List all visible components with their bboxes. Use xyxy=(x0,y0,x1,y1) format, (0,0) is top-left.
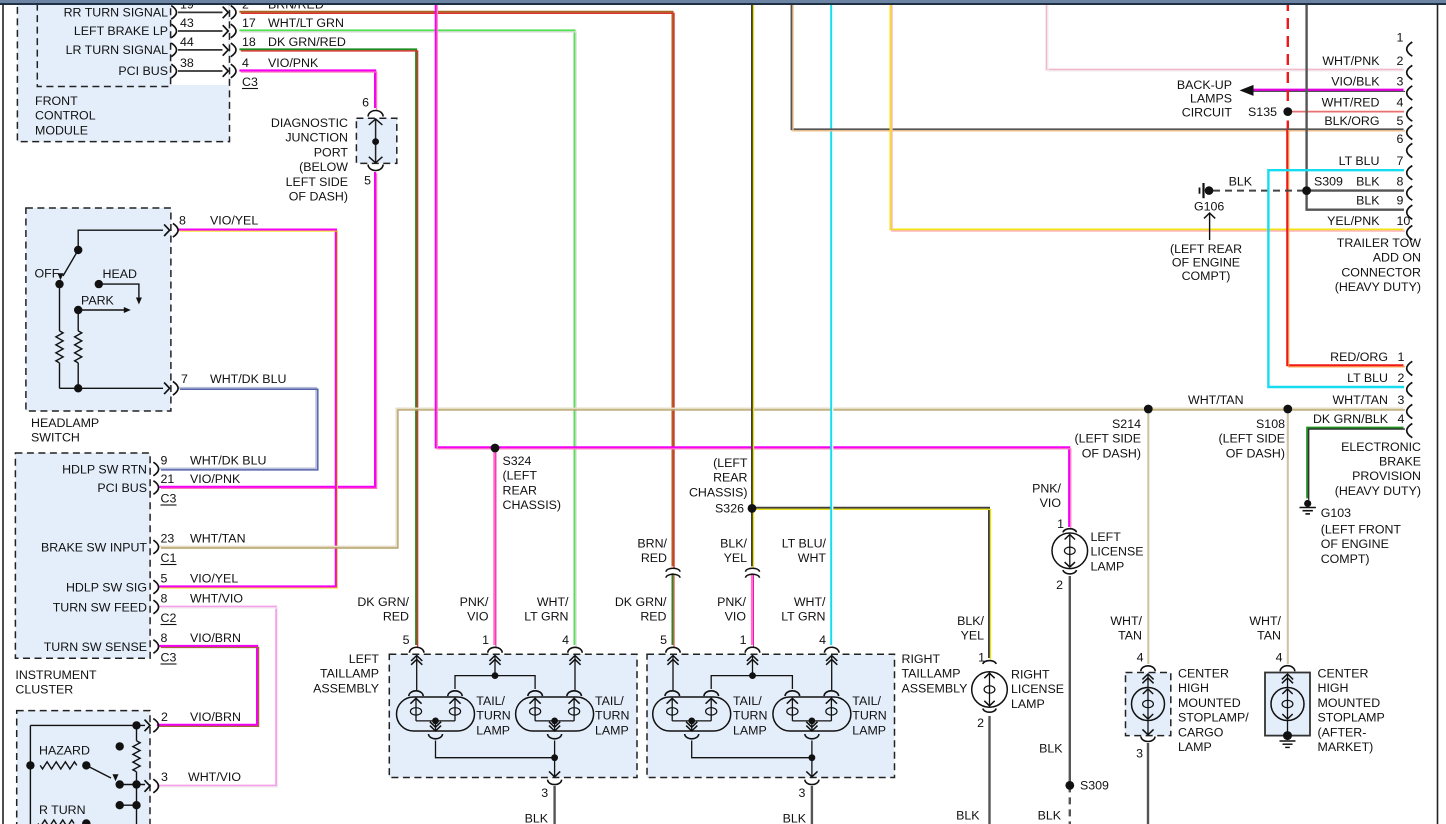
svg-text:LT BLU/: LT BLU/ xyxy=(782,537,827,551)
svg-text:3: 3 xyxy=(1397,74,1404,88)
svg-text:VIO/BLK: VIO/BLK xyxy=(1331,74,1380,88)
svg-text:4: 4 xyxy=(562,633,569,647)
svg-text:VIO/BRN: VIO/BRN xyxy=(190,631,241,645)
svg-text:YEL: YEL xyxy=(724,551,748,565)
svg-text:(BELOW: (BELOW xyxy=(299,160,348,174)
svg-text:LAMP: LAMP xyxy=(1011,697,1045,711)
svg-text:(LEFT SIDE: (LEFT SIDE xyxy=(1218,432,1285,446)
svg-text:JUNCTION: JUNCTION xyxy=(285,131,348,145)
svg-text:3: 3 xyxy=(798,786,805,800)
svg-text:VIO/BRN: VIO/BRN xyxy=(190,710,241,724)
svg-text:VIO: VIO xyxy=(467,610,489,624)
svg-text:C3: C3 xyxy=(242,75,258,89)
svg-text:LAMP: LAMP xyxy=(595,723,629,737)
svg-text:3: 3 xyxy=(1398,393,1405,407)
svg-text:CONNECTOR: CONNECTOR xyxy=(1341,265,1421,279)
svg-text:BLK: BLK xyxy=(1229,175,1253,189)
svg-text:(HEAVY DUTY): (HEAVY DUTY) xyxy=(1335,280,1421,294)
svg-text:2: 2 xyxy=(977,716,984,730)
svg-text:BLK/: BLK/ xyxy=(957,614,984,628)
svg-text:5: 5 xyxy=(161,572,168,586)
svg-text:44: 44 xyxy=(180,35,194,49)
svg-text:43: 43 xyxy=(180,16,194,30)
svg-text:7: 7 xyxy=(181,372,188,386)
svg-text:LEFT SIDE: LEFT SIDE xyxy=(286,175,348,189)
svg-text:TURN: TURN xyxy=(852,709,886,723)
svg-text:8: 8 xyxy=(179,214,186,228)
svg-text:10: 10 xyxy=(1397,214,1411,228)
svg-text:HAZARD: HAZARD xyxy=(39,744,90,758)
svg-text:ASSEMBLY: ASSEMBLY xyxy=(313,681,379,695)
svg-text:LEFT: LEFT xyxy=(349,652,380,666)
svg-text:WHT/DK BLU: WHT/DK BLU xyxy=(210,372,286,386)
svg-text:(LEFT FRONT: (LEFT FRONT xyxy=(1321,523,1402,537)
svg-text:TRAILER TOW: TRAILER TOW xyxy=(1337,236,1422,250)
svg-text:(LEFT: (LEFT xyxy=(503,469,538,483)
svg-text:COMPT): COMPT) xyxy=(1182,269,1231,283)
svg-text:LAMPS: LAMPS xyxy=(1190,92,1232,106)
svg-text:(HEAVY DUTY): (HEAVY DUTY) xyxy=(1335,484,1421,498)
svg-text:INSTRUMENT: INSTRUMENT xyxy=(15,668,97,682)
svg-text:1: 1 xyxy=(1397,31,1404,45)
svg-text:5: 5 xyxy=(364,174,371,188)
svg-text:C3: C3 xyxy=(161,492,177,506)
svg-text:21: 21 xyxy=(161,472,175,486)
svg-text:RIGHT: RIGHT xyxy=(1011,668,1050,682)
svg-text:G103: G103 xyxy=(1321,506,1351,520)
svg-text:TURN: TURN xyxy=(476,709,510,723)
svg-text:LICENSE: LICENSE xyxy=(1011,682,1064,696)
svg-text:(LEFT SIDE: (LEFT SIDE xyxy=(1074,432,1141,446)
svg-text:PNK/: PNK/ xyxy=(460,595,489,609)
svg-text:WHT/TAN: WHT/TAN xyxy=(1188,393,1244,407)
svg-text:TAN: TAN xyxy=(1118,629,1142,643)
svg-text:RIGHT: RIGHT xyxy=(902,652,941,666)
svg-text:LAMP: LAMP xyxy=(1091,559,1125,573)
svg-text:CIRCUIT: CIRCUIT xyxy=(1182,105,1233,119)
svg-text:R TURN: R TURN xyxy=(39,803,86,817)
svg-text:PCI BUS: PCI BUS xyxy=(118,64,168,78)
svg-text:2: 2 xyxy=(161,710,168,724)
svg-text:VIO/YEL: VIO/YEL xyxy=(190,572,238,586)
svg-text:7: 7 xyxy=(1397,154,1404,168)
svg-text:STOPLAMP/: STOPLAMP/ xyxy=(1178,711,1249,725)
svg-text:ELECTRONIC: ELECTRONIC xyxy=(1341,440,1421,454)
svg-text:BRN/: BRN/ xyxy=(637,537,667,551)
svg-text:BLK: BLK xyxy=(1356,194,1380,208)
svg-text:LAMP: LAMP xyxy=(476,723,510,737)
svg-text:OF ENGINE: OF ENGINE xyxy=(1321,537,1389,551)
svg-text:5: 5 xyxy=(403,633,410,647)
svg-text:WHT: WHT xyxy=(798,551,827,565)
svg-text:VIO/YEL: VIO/YEL xyxy=(210,214,258,228)
svg-text:S309: S309 xyxy=(1080,779,1109,793)
svg-text:TAIL/: TAIL/ xyxy=(476,694,505,708)
svg-text:4: 4 xyxy=(819,633,826,647)
svg-text:38: 38 xyxy=(180,56,194,70)
svg-text:HEADLAMP: HEADLAMP xyxy=(31,416,99,430)
svg-text:TURN: TURN xyxy=(733,709,767,723)
svg-text:S108: S108 xyxy=(1256,417,1285,431)
svg-text:VIO/PNK: VIO/PNK xyxy=(268,56,319,70)
svg-text:TURN: TURN xyxy=(595,709,629,723)
svg-text:CENTER: CENTER xyxy=(1178,667,1229,681)
svg-text:WHT/TAN: WHT/TAN xyxy=(190,532,246,546)
svg-text:TURN SW SENSE: TURN SW SENSE xyxy=(44,640,147,654)
svg-text:BLK: BLK xyxy=(956,809,980,823)
svg-text:COMPT): COMPT) xyxy=(1321,552,1370,566)
svg-text:1: 1 xyxy=(482,633,489,647)
svg-text:BACK-UP: BACK-UP xyxy=(1177,78,1232,92)
svg-text:(LEFT REAR: (LEFT REAR xyxy=(1170,242,1242,256)
svg-text:HIGH: HIGH xyxy=(1178,681,1209,695)
svg-text:VIO/PNK: VIO/PNK xyxy=(190,472,241,486)
svg-text:8: 8 xyxy=(1397,175,1404,189)
svg-text:C3: C3 xyxy=(161,651,177,665)
svg-text:8: 8 xyxy=(161,631,168,645)
svg-text:CENTER: CENTER xyxy=(1318,667,1369,681)
svg-text:S309: S309 xyxy=(1314,175,1343,189)
svg-text:LT GRN: LT GRN xyxy=(524,610,568,624)
svg-text:PNK/: PNK/ xyxy=(717,595,746,609)
svg-text:BLK: BLK xyxy=(783,812,807,824)
svg-text:MOUNTED: MOUNTED xyxy=(1318,696,1381,710)
svg-text:WHT/: WHT/ xyxy=(794,595,826,609)
svg-text:23: 23 xyxy=(161,532,175,546)
svg-text:PROVISION: PROVISION xyxy=(1352,469,1421,483)
svg-text:SWITCH: SWITCH xyxy=(31,431,80,445)
svg-text:WHT/TAN: WHT/TAN xyxy=(1332,393,1388,407)
svg-text:TAIL/: TAIL/ xyxy=(595,694,624,708)
svg-text:6: 6 xyxy=(362,96,369,110)
svg-text:DK GRN/BLK: DK GRN/BLK xyxy=(1313,412,1389,426)
svg-text:BLK/: BLK/ xyxy=(720,537,747,551)
svg-text:S214: S214 xyxy=(1112,417,1141,431)
svg-text:OF DASH): OF DASH) xyxy=(289,190,348,204)
svg-text:9: 9 xyxy=(161,454,168,468)
svg-text:S326: S326 xyxy=(715,502,744,516)
svg-text:TAIL/: TAIL/ xyxy=(733,694,762,708)
svg-text:BLK: BLK xyxy=(525,812,549,824)
svg-text:CHASSIS): CHASSIS) xyxy=(689,485,748,499)
svg-text:RED: RED xyxy=(641,551,667,565)
svg-text:4: 4 xyxy=(1397,96,1404,110)
svg-text:OF DASH): OF DASH) xyxy=(1226,446,1285,460)
svg-text:RED: RED xyxy=(383,610,409,624)
svg-text:CLUSTER: CLUSTER xyxy=(15,683,73,697)
svg-text:3: 3 xyxy=(541,786,548,800)
svg-text:TAILLAMP: TAILLAMP xyxy=(902,667,961,681)
svg-text:1: 1 xyxy=(1057,517,1064,531)
svg-text:1: 1 xyxy=(1398,350,1405,364)
svg-text:4: 4 xyxy=(1137,651,1144,665)
svg-text:WHT/RED: WHT/RED xyxy=(1322,96,1380,110)
svg-text:1: 1 xyxy=(740,633,747,647)
svg-text:2: 2 xyxy=(1056,578,1063,592)
svg-text:YEL: YEL xyxy=(961,629,985,643)
svg-text:STOPLAMP: STOPLAMP xyxy=(1318,711,1385,725)
svg-text:WHT/LT GRN: WHT/LT GRN xyxy=(268,16,344,30)
svg-text:RED: RED xyxy=(640,610,666,624)
svg-text:5: 5 xyxy=(1397,114,1404,128)
svg-text:CHASSIS): CHASSIS) xyxy=(503,498,562,512)
svg-text:18: 18 xyxy=(242,35,256,49)
svg-text:9: 9 xyxy=(1397,194,1404,208)
svg-text:(LEFT: (LEFT xyxy=(713,456,748,470)
svg-text:TAN: TAN xyxy=(1257,629,1281,643)
svg-text:LT GRN: LT GRN xyxy=(781,610,825,624)
svg-text:LEFT: LEFT xyxy=(1091,530,1122,544)
svg-text:OFF: OFF xyxy=(35,267,60,281)
svg-text:ASSEMBLY: ASSEMBLY xyxy=(902,681,968,695)
svg-text:S135: S135 xyxy=(1248,105,1277,119)
svg-text:17: 17 xyxy=(242,16,256,30)
svg-text:TAILLAMP: TAILLAMP xyxy=(320,667,379,681)
svg-text:FRONT: FRONT xyxy=(35,94,78,108)
svg-text:C1: C1 xyxy=(161,551,177,565)
svg-text:TAIL/: TAIL/ xyxy=(852,694,881,708)
svg-text:PNK/: PNK/ xyxy=(1032,482,1061,496)
svg-text:LAMP: LAMP xyxy=(1178,740,1212,754)
svg-text:C2: C2 xyxy=(161,611,177,625)
svg-text:HDLP SW RTN: HDLP SW RTN xyxy=(62,463,147,477)
svg-text:WHT/VIO: WHT/VIO xyxy=(190,592,243,606)
svg-text:DIAGNOSTIC: DIAGNOSTIC xyxy=(271,116,348,130)
svg-text:WHT/: WHT/ xyxy=(537,595,569,609)
svg-text:3: 3 xyxy=(161,770,168,784)
svg-text:HDLP SW SIG: HDLP SW SIG xyxy=(66,581,147,595)
svg-text:REAR: REAR xyxy=(713,471,747,485)
svg-text:BLK: BLK xyxy=(1356,175,1380,189)
svg-text:RED/ORG: RED/ORG xyxy=(1330,350,1388,364)
svg-text:CONTROL: CONTROL xyxy=(35,109,96,123)
svg-text:BLK/ORG: BLK/ORG xyxy=(1324,114,1379,128)
svg-text:YEL/PNK: YEL/PNK xyxy=(1327,214,1380,228)
svg-text:CARGO: CARGO xyxy=(1178,725,1224,739)
svg-text:LAMP: LAMP xyxy=(733,723,767,737)
svg-text:5: 5 xyxy=(660,633,667,647)
svg-text:(AFTER-: (AFTER- xyxy=(1318,725,1367,739)
svg-text:WHT/VIO: WHT/VIO xyxy=(188,770,241,784)
svg-text:LAMP: LAMP xyxy=(852,723,886,737)
svg-text:DK GRN/: DK GRN/ xyxy=(615,595,667,609)
svg-text:PCI BUS: PCI BUS xyxy=(97,481,147,495)
svg-text:S324: S324 xyxy=(503,454,532,468)
svg-text:LICENSE: LICENSE xyxy=(1091,545,1144,559)
svg-text:DK GRN/: DK GRN/ xyxy=(357,595,409,609)
svg-text:WHT/: WHT/ xyxy=(1249,614,1281,628)
svg-text:DK GRN/RED: DK GRN/RED xyxy=(268,35,346,49)
svg-text:HEAD: HEAD xyxy=(103,267,137,281)
svg-text:8: 8 xyxy=(161,592,168,606)
svg-text:BRAKE SW INPUT: BRAKE SW INPUT xyxy=(41,541,147,555)
svg-text:1: 1 xyxy=(978,651,985,665)
svg-text:MOUNTED: MOUNTED xyxy=(1178,696,1241,710)
svg-text:LT BLU: LT BLU xyxy=(1347,371,1388,385)
svg-text:6: 6 xyxy=(1397,132,1404,146)
svg-text:WHT/DK BLU: WHT/DK BLU xyxy=(190,454,266,468)
svg-text:OF DASH): OF DASH) xyxy=(1082,446,1141,460)
svg-text:4: 4 xyxy=(1398,412,1405,426)
svg-text:BLK: BLK xyxy=(1038,809,1062,823)
svg-text:WHT/PNK: WHT/PNK xyxy=(1322,54,1380,68)
svg-text:LEFT BRAKE LP: LEFT BRAKE LP xyxy=(74,24,168,38)
svg-text:PORT: PORT xyxy=(314,145,349,159)
svg-text:HIGH: HIGH xyxy=(1318,681,1349,695)
svg-text:3: 3 xyxy=(1136,747,1143,761)
svg-text:ADD ON: ADD ON xyxy=(1373,251,1421,265)
svg-text:BLK: BLK xyxy=(1039,742,1063,756)
svg-text:LR TURN SIGNAL: LR TURN SIGNAL xyxy=(66,43,168,57)
svg-text:4: 4 xyxy=(242,56,249,70)
svg-text:4: 4 xyxy=(1276,651,1283,665)
svg-text:MARKET): MARKET) xyxy=(1318,740,1374,754)
svg-text:VIO: VIO xyxy=(1040,496,1062,510)
svg-text:BRAKE: BRAKE xyxy=(1379,455,1421,469)
svg-text:REAR: REAR xyxy=(503,483,537,497)
svg-text:RR TURN SIGNAL: RR TURN SIGNAL xyxy=(64,5,169,19)
svg-text:G106: G106 xyxy=(1194,200,1224,214)
svg-text:WHT/: WHT/ xyxy=(1110,614,1142,628)
svg-text:LT BLU: LT BLU xyxy=(1339,154,1380,168)
svg-text:MODULE: MODULE xyxy=(35,123,88,137)
svg-text:OF ENGINE: OF ENGINE xyxy=(1172,256,1240,270)
svg-text:2: 2 xyxy=(1397,54,1404,68)
svg-text:TURN SW FEED: TURN SW FEED xyxy=(53,601,147,615)
svg-text:2: 2 xyxy=(1398,371,1405,385)
svg-text:VIO: VIO xyxy=(725,610,747,624)
svg-text:PARK: PARK xyxy=(81,294,115,308)
